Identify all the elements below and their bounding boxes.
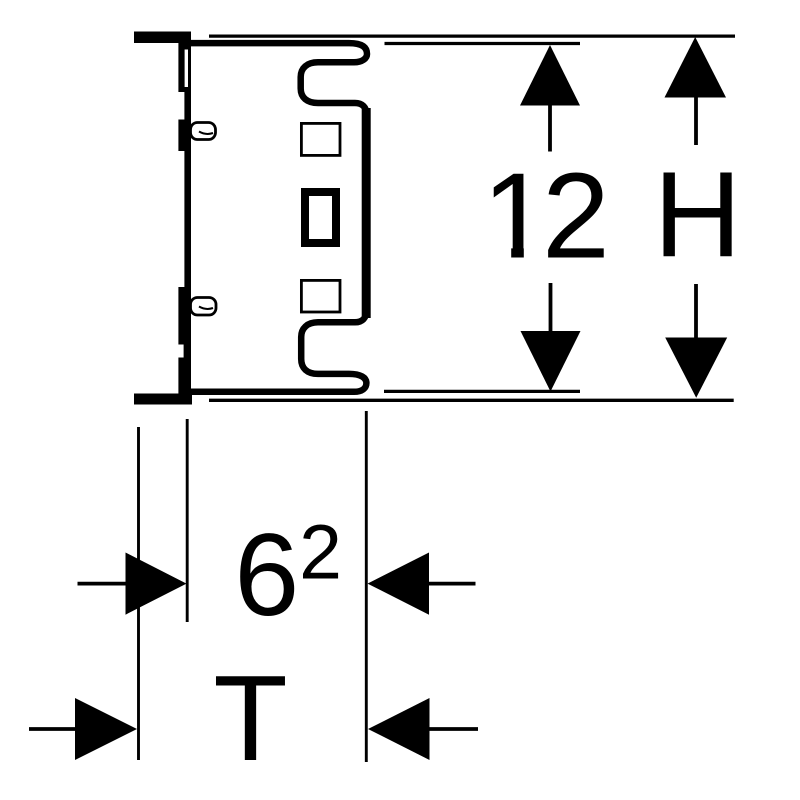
- svg-text:2: 2: [542, 148, 610, 284]
- lower hook tab: [191, 298, 217, 316]
- dimension arrow T right: [368, 698, 430, 760]
- extension line H bottom: [209, 399, 734, 402]
- svg-text:H: H: [653, 147, 741, 283]
- svg-text:1: 1: [482, 148, 550, 284]
- upper hook tab: [191, 123, 216, 140]
- left wall thick pad top: [178, 43, 191, 92]
- dimension arrow T left: [29, 727, 77, 731]
- extension line middle (x=187): [186, 419, 189, 622]
- top flange bar: [134, 32, 191, 44]
- left wall thick pad at upper hook: [178, 120, 191, 152]
- lower hook tab crease: [199, 307, 213, 309]
- bottom flange bar: [134, 394, 192, 405]
- left wall thick pad bottom: [178, 287, 191, 397]
- left wall notch: [178, 345, 184, 358]
- upper hook tab crease: [199, 132, 213, 134]
- extension line right (x=366): [365, 411, 368, 762]
- middle slot cutout (thick border): [305, 192, 336, 243]
- small square cutout upper: [301, 123, 340, 155]
- left wall main line: [184, 40, 191, 400]
- dimension arrow 6 right: [368, 553, 430, 615]
- right wall thick overlay: [362, 108, 371, 318]
- extension line H top: [209, 34, 735, 37]
- extension line left (x=138): [137, 427, 140, 760]
- left wall double-fold slit: [185, 50, 188, 88]
- svg-text:6: 6: [234, 509, 299, 640]
- dimension arrow 12 down: [549, 283, 553, 333]
- extension line 12 bottom: [384, 390, 580, 393]
- dimension arrow H down: [694, 284, 698, 340]
- extension line 12 top: [385, 42, 581, 45]
- dimension arrow H up: [665, 37, 727, 98]
- small square cutout lower: [301, 280, 340, 312]
- svg-text:T: T: [213, 650, 288, 786]
- dimension arrow 12 up: [520, 45, 580, 106]
- svg-text:2: 2: [299, 509, 342, 595]
- dimension arrow 6 left: [78, 582, 129, 586]
- rail profile outline (top edge, spring-clip waves, right wall, bottom edge): [191, 43, 367, 392]
